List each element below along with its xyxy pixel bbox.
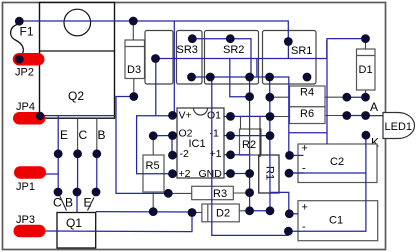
svg-text:E: E (60, 128, 68, 142)
trimmer SR3 (145, 31, 202, 85)
wire SR2 pad right and down to row77 (230, 39, 251, 77)
svg-text:R3: R3 (213, 188, 227, 200)
wire O2 to -2 link (171, 136, 173, 156)
lead D1 top (365, 39, 367, 49)
svg-text:JP1: JP1 (16, 181, 35, 193)
pad F1 top (15, 17, 24, 26)
wire vertical to IC V+ (173, 21, 175, 115)
pad IC1 pin GND (226, 169, 235, 178)
svg-text:GND: GND (199, 168, 223, 180)
resistor R4 (290, 86, 326, 107)
svg-text:V+: V+ (179, 110, 192, 122)
pad IC1 pin -1 (226, 131, 235, 140)
pad col R1 d (266, 206, 275, 215)
pad Q2 B (92, 149, 101, 158)
pad SR3 bottom (187, 73, 196, 82)
pad A (361, 111, 370, 120)
lead R6 right (325, 115, 347, 117)
wire branch down x257 (256, 59, 258, 78)
svg-text:D2: D2 (216, 208, 230, 220)
svg-text:IC1: IC1 (189, 138, 206, 150)
pad C2 minus (285, 169, 294, 178)
pad D3 bottom (129, 92, 138, 101)
pad D1 top (361, 34, 370, 43)
resistor R6 (290, 107, 326, 124)
pad D2 right (245, 206, 254, 215)
wire C lower (77, 154, 79, 192)
svg-text:R4: R4 (300, 86, 314, 98)
pad Q1 C (54, 188, 63, 197)
svg-text:R5: R5 (146, 160, 160, 172)
pad SR1 top (284, 37, 293, 46)
svg-text:Q1: Q1 (66, 216, 82, 230)
wire JP1 (45, 173, 58, 175)
jumper JP1 (14, 166, 46, 193)
pad IC1 pin O2 (168, 131, 177, 140)
wire SR2 pad down through IC and D2 (212, 77, 289, 235)
wire JP4 down to R3 left pad (116, 116, 168, 194)
lead LED A (366, 115, 383, 117)
svg-text:LED1: LED1 (385, 121, 413, 133)
capacitor C1 (298, 201, 378, 241)
pad JP2 (15, 55, 24, 64)
wire V+ left chain to +2 (137, 116, 173, 174)
wire JP4 run (42, 115, 116, 117)
pad JP4 end (36, 112, 44, 120)
wire E vertical (57, 116, 59, 192)
svg-text:B: B (98, 128, 106, 142)
pad SR1 bottom left (265, 73, 274, 82)
pad SR1 bottom right (303, 73, 312, 82)
lead R4 left (270, 96, 289, 98)
wire branch down to pad 249 (230, 59, 250, 97)
wire B lower (96, 154, 98, 192)
pad C1 minus (284, 227, 293, 236)
svg-text:E: E (84, 196, 92, 210)
wire O1 row (231, 115, 271, 117)
resistor R3 (192, 186, 234, 200)
pad R5 top (149, 131, 158, 140)
pad D1 bottom (361, 93, 370, 102)
pad D2 left (188, 208, 197, 217)
pad C1 plus (285, 209, 294, 218)
wire C2- stub (289, 172, 304, 174)
svg-text:C1: C1 (329, 215, 343, 227)
wire R1 junction to C1+ (270, 192, 289, 213)
capacitor C2 (298, 143, 377, 183)
wire SR3 mid pad down to V+ chain (155, 59, 157, 116)
pad R6 right (342, 111, 351, 120)
svg-text:R6: R6 (300, 108, 314, 120)
jumper JP2 (13, 53, 45, 79)
svg-text:+: + (302, 202, 308, 214)
wire R4 right link (347, 96, 366, 98)
wire C2 minus row (289, 172, 366, 174)
wire O2 to R5 top (153, 135, 172, 137)
resistor R1 (vertical) (259, 155, 279, 193)
lead D3 bottom (133, 79, 135, 97)
resistor R2 (240, 129, 262, 155)
wire D1 to C2 top (327, 39, 366, 144)
wire Q1 top run (96, 211, 192, 213)
wire B to Q1 (76, 192, 78, 213)
resistor R5 (143, 155, 164, 192)
pad col R1 b (266, 112, 275, 121)
svg-text:F1: F1 (20, 25, 34, 39)
pad col R1 a (265, 93, 274, 102)
wire pads link row y211 (250, 210, 270, 212)
pad mid x249 (245, 92, 254, 101)
wire C1+ stub (289, 213, 298, 215)
svg-text:D3: D3 (127, 64, 141, 76)
svg-text:SR3: SR3 (177, 44, 198, 56)
lead R3 right (233, 192, 249, 194)
lead R3 left (168, 192, 191, 194)
pad D3 top on F1 line (129, 17, 138, 26)
wire SR top pads link (192, 38, 230, 40)
op-amp IC1 (173, 108, 231, 180)
pad SR3 mid (151, 54, 160, 63)
pin stubs (173, 115, 231, 173)
svg-text:C2: C2 (330, 156, 344, 168)
wire K net (288, 135, 366, 231)
wire JP4 up to D3 pad (116, 97, 134, 116)
wire gray mid vertical x249 (249, 97, 251, 211)
pad SR2 top (226, 34, 235, 43)
lead D2 right (239, 210, 249, 212)
lead R2 right (259, 117, 261, 158)
wire JP3 to D2 pad (45, 213, 192, 232)
diode D1 (357, 49, 376, 90)
pad IC1 pin +1 (226, 150, 235, 159)
pad K (362, 131, 371, 140)
wire C2+ stub (290, 154, 304, 156)
pad Q2 E (54, 149, 63, 158)
svg-text:A: A (370, 100, 378, 114)
wire SR2botR stub (249, 77, 251, 97)
lead D3 top (132, 21, 134, 40)
svg-text:+2: +2 (179, 168, 191, 180)
pad GND right (245, 169, 254, 178)
svg-text:O1: O1 (207, 110, 221, 122)
wire +1 row (231, 154, 250, 156)
svg-text:SR2: SR2 (223, 44, 244, 56)
pad R5 bottom (149, 207, 158, 216)
wire R1 column (269, 77, 271, 211)
pad R4 right (342, 93, 351, 102)
lead D2 left (192, 212, 202, 214)
wire F1 to SR1 top (19, 21, 288, 42)
svg-text:C: C (79, 128, 88, 142)
pad SR2 bottom right (245, 73, 254, 82)
trimmer SR2 (205, 31, 259, 85)
pad IC1 pin +2 (168, 169, 177, 178)
wire GND row (231, 173, 250, 175)
transistor Q2 (40, 3, 115, 119)
wire jog C2 top (289, 132, 327, 134)
svg-text:JP2: JP2 (15, 67, 34, 79)
diagonal C to Q1 (60, 197, 67, 211)
pad IC1 pin O1 (226, 112, 235, 121)
lead R2 top (240, 117, 242, 130)
pad Q2 C (73, 149, 82, 158)
diode D3 (125, 40, 145, 79)
lead R6 left (270, 116, 289, 118)
pad SR3 top (188, 34, 197, 43)
transistor Q1 (57, 213, 96, 249)
pad Q1 E (92, 188, 101, 197)
svg-text:-1: -1 (210, 128, 219, 140)
wire R6 right link (347, 115, 366, 117)
diode D2 (202, 204, 239, 222)
lead R5 top (152, 140, 154, 155)
jumper JP4 (13, 101, 46, 125)
pad C2 plus (285, 151, 294, 160)
pad R3 right (245, 188, 254, 197)
svg-text:B: B (65, 196, 73, 210)
pad R3 left (164, 189, 173, 198)
lead D1 bottom (365, 90, 367, 97)
svg-text:D1: D1 (359, 64, 373, 76)
lead R4 right (325, 96, 347, 98)
wire -1 row (231, 135, 271, 137)
jumper JP3 (14, 214, 46, 237)
svg-text:JP4: JP4 (16, 101, 35, 113)
pad col R1 c (266, 131, 275, 140)
lead R5 bottom (152, 192, 154, 212)
wire SR3 mid row y58.5 (156, 40, 327, 59)
svg-text:JP3: JP3 (16, 214, 35, 226)
pad Q1 B (73, 188, 82, 197)
svg-text:SR1: SR1 (291, 45, 312, 57)
lead B upper (96, 118, 98, 154)
LED LED1 (370, 100, 415, 150)
fuse F1 curved wire (11, 25, 24, 57)
pad IC1 pin V+ (168, 111, 177, 120)
pad IC1 pin -2 (168, 151, 177, 160)
svg-text:Q2: Q2 (68, 89, 84, 103)
pad SR2 bottom left (206, 73, 215, 82)
wire stub up to SR1 pad (287, 42, 289, 59)
lead C upper (77, 118, 79, 154)
svg-text:+: + (302, 143, 308, 155)
trimmer SR1 (263, 31, 317, 85)
diagonal E to Q1 (88, 198, 95, 211)
wire bottom pads row y77 to C2+ (192, 77, 290, 155)
